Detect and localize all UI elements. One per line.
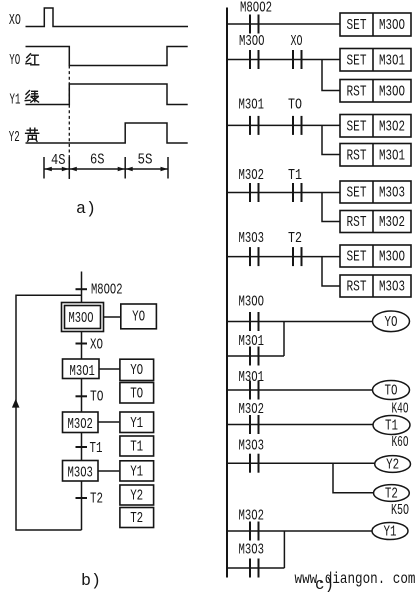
svg-text:Y1: Y1 bbox=[10, 92, 21, 109]
svg-text:b): b) bbox=[81, 572, 101, 591]
svg-text:M3OO: M3OO bbox=[69, 310, 94, 327]
svg-text:M3O2: M3O2 bbox=[379, 119, 405, 136]
svg-text:T2: T2 bbox=[288, 230, 302, 247]
svg-text:T1: T1 bbox=[288, 167, 302, 184]
svg-text:6S: 6S bbox=[90, 152, 105, 169]
svg-text:K5O: K5O bbox=[391, 502, 409, 519]
svg-text:M3O3: M3O3 bbox=[379, 279, 405, 296]
svg-text:M3O1: M3O1 bbox=[239, 369, 265, 386]
svg-text:M3O2: M3O2 bbox=[379, 214, 405, 231]
svg-text:Y1: Y1 bbox=[130, 464, 143, 481]
svg-text:M3OO: M3OO bbox=[379, 249, 405, 266]
svg-text:SET: SET bbox=[347, 17, 367, 34]
svg-text:M3O2: M3O2 bbox=[239, 167, 265, 184]
svg-text:TO: TO bbox=[90, 389, 104, 406]
svg-text:M3O3: M3O3 bbox=[68, 465, 93, 482]
svg-text:YO: YO bbox=[132, 309, 145, 326]
svg-text:T2: T2 bbox=[90, 491, 103, 508]
svg-text:4S: 4S bbox=[51, 152, 66, 169]
svg-text:M3O2: M3O2 bbox=[239, 401, 265, 418]
svg-text:TO: TO bbox=[288, 97, 302, 114]
svg-text:SET: SET bbox=[347, 53, 367, 70]
svg-text:YO: YO bbox=[9, 52, 20, 69]
svg-text:M8OO2: M8OO2 bbox=[91, 282, 123, 299]
svg-text:T1: T1 bbox=[90, 440, 103, 457]
svg-text:T2: T2 bbox=[385, 486, 398, 503]
svg-text:M3O2: M3O2 bbox=[68, 416, 93, 433]
svg-text:TO: TO bbox=[385, 383, 398, 400]
svg-text:SET: SET bbox=[347, 185, 367, 202]
svg-text:M3O1: M3O1 bbox=[70, 363, 95, 380]
svg-text:RST: RST bbox=[347, 279, 367, 296]
svg-text:M3OO: M3OO bbox=[239, 33, 265, 50]
svg-text:RST: RST bbox=[347, 148, 367, 165]
svg-text:M3O1: M3O1 bbox=[239, 97, 265, 114]
svg-text:M3O2: M3O2 bbox=[239, 508, 265, 525]
svg-text:TO: TO bbox=[130, 386, 143, 403]
svg-text:YO: YO bbox=[130, 362, 143, 379]
svg-text:SET: SET bbox=[347, 119, 367, 136]
svg-text:www.diangon. com: www.diangon. com bbox=[295, 570, 416, 588]
svg-text:K6O: K6O bbox=[392, 434, 409, 451]
svg-text:a): a) bbox=[76, 200, 96, 219]
svg-text:Y1: Y1 bbox=[130, 415, 143, 432]
svg-text:Y2: Y2 bbox=[9, 129, 20, 146]
svg-text:RST: RST bbox=[347, 84, 367, 101]
svg-text:M3O3: M3O3 bbox=[239, 542, 265, 559]
svg-text:M3O1: M3O1 bbox=[379, 148, 405, 165]
svg-text:5S: 5S bbox=[138, 152, 153, 169]
svg-text:M3O1: M3O1 bbox=[239, 333, 265, 350]
svg-text:T1: T1 bbox=[385, 418, 398, 435]
svg-text:M3O1: M3O1 bbox=[379, 53, 405, 70]
svg-text:SET: SET bbox=[347, 249, 367, 266]
svg-text:K4O: K4O bbox=[392, 401, 409, 418]
svg-text:T2: T2 bbox=[130, 510, 143, 527]
svg-text:M3OO: M3OO bbox=[379, 17, 405, 34]
svg-text:Y2: Y2 bbox=[386, 457, 399, 474]
svg-text:M3OO: M3OO bbox=[239, 294, 265, 311]
svg-text:YO: YO bbox=[385, 314, 398, 331]
svg-text:M3O3: M3O3 bbox=[239, 438, 265, 455]
svg-text:XO: XO bbox=[291, 33, 303, 50]
svg-text:M3OO: M3OO bbox=[379, 84, 405, 101]
svg-text:XO: XO bbox=[9, 12, 21, 29]
svg-text:c): c) bbox=[315, 576, 334, 592]
svg-text:M3O3: M3O3 bbox=[379, 185, 405, 202]
svg-text:Y1: Y1 bbox=[384, 524, 397, 541]
svg-text:T1: T1 bbox=[130, 439, 143, 456]
svg-text:XO: XO bbox=[90, 337, 103, 354]
svg-text:RST: RST bbox=[347, 214, 367, 231]
svg-text:Y2: Y2 bbox=[130, 488, 143, 505]
svg-text:M3O3: M3O3 bbox=[239, 230, 265, 247]
svg-text:M8OO2: M8OO2 bbox=[240, 0, 272, 17]
